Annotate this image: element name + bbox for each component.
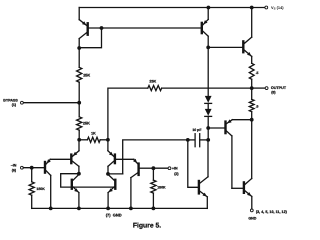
node E (cap right) [206,138,210,142]
resistor R7 150K [29,168,45,209]
node +IN [152,166,156,170]
node Q8 collector / Q10 base [206,46,210,50]
wire bypass lead [23,102,79,104]
node B (Q3 emitter supply) [77,138,81,142]
transistor Q2 (PNP, +input) [131,159,152,209]
svg-text:(2): (2) [174,172,179,176]
resistor R8 150K [151,168,166,208]
transistor Q6 (NPN, mirror output) [108,174,115,208]
transistor Q9 (PNP driver) [208,119,252,188]
node V+ / collector of Q10 [250,6,254,10]
wire Q9 collector to Q11 base [232,187,243,189]
terminal OUTPUT (8) [265,86,287,94]
svg-text:OUTPUT: OUTPUT [271,86,287,90]
node V+ / emitter of Q8 [207,6,211,10]
node F (cap left / Q12 base) [186,138,190,142]
wire mirror tie (node H to base rail) [61,174,115,187]
capacitor C1 10 pF [188,128,208,147]
svg-text:BYPASS: BYPASS [3,99,18,103]
node Q6 emitter at GND [106,207,110,211]
resistor R4 25K (feedback) [148,80,252,91]
wire GND rail (pin 7) [32,207,208,209]
resistor R5 .5 [249,56,258,88]
node BYPASS [77,101,81,105]
transistor Q7 (PNP, diode-connected) [79,8,88,39]
wire node I to Q12 base run [108,140,188,174]
wire output lead [252,87,266,89]
wire +IN lead [152,167,168,169]
svg-text:(8): (8) [271,91,276,95]
node H (Q3 collector / Q5 collector) [77,172,81,176]
wire node C up to feedback run [108,88,148,140]
wire node F to Q12 base [188,140,198,187]
svg-text:(7) GND: (7) GND [106,212,122,217]
wire V+ supply rail (pin 14) [79,7,265,9]
transistor Q4 (PNP, diff pair right) [108,140,134,174]
svg-text:GND: GND [248,217,256,221]
wire D2 to node D [207,116,209,128]
svg-text:−IN: −IN [11,163,17,167]
terminal +IN (2) [168,167,179,177]
transistor Q10 (NPN, upper output) [208,8,252,57]
node D (diode bottom / Q9 base) [206,126,210,130]
transistor Q1 (PNP, -input) [45,159,70,208]
svg-text:10 pF: 10 pF [192,128,202,132]
resistor R2 25K [77,103,91,140]
svg-text:25K: 25K [83,73,90,77]
diode D2 [205,109,212,117]
wire -IN lead [23,167,44,169]
resistor R3 1K [79,131,108,142]
node Q7 base tie [100,26,104,30]
wire node D down to cap node [207,128,209,140]
svg-text:.5: .5 [256,104,259,108]
node I (Q4 collector / Q6 collector) [106,172,110,176]
transistor Q8 (PNP) [202,8,208,48]
wire D1-D2 [207,103,209,109]
node OUTPUT [250,86,254,90]
wire Q7 collector to node A [78,39,80,49]
svg-text:.5: .5 [256,71,259,75]
terminal -IN (6) [11,163,24,172]
svg-text:Figure 5.: Figure 5. [133,223,161,230]
node R8 at GND [152,207,156,211]
svg-text:+IN: +IN [172,167,178,171]
transistor Q12 (NPN, second stage) [199,140,208,209]
resistor R1 25K [77,48,91,103]
svg-text:(3, 4, 5, 10, 11, 12): (3, 4, 5, 10, 11, 12) [256,210,288,214]
svg-text:150K: 150K [157,186,166,190]
node Q2 collector at GND [129,207,133,211]
transistor Q3 (PNP, diff pair left) [71,140,79,174]
svg-text:25K: 25K [149,80,156,84]
node G (Q9 emitter / Q11 collector) [250,118,254,122]
node C (Q4 emitter / feedback) [106,138,110,142]
svg-text:VS (14): VS (14) [271,5,284,11]
label (7) GND [106,212,122,217]
transistor Q5 (NPN, mirror diode) [72,174,79,208]
node A (Q7 collector junction) [77,46,81,50]
svg-text:25K: 25K [83,122,90,126]
resistor R6 .5 [249,88,258,120]
wire Q7 base rail to Q8 base [89,27,201,29]
node -IN [30,166,34,170]
terminal BYPASS (1) [3,99,23,108]
label Figure 5. [133,223,161,230]
wire Q8 collector down to diodes [207,47,209,96]
transistor Q11 (NPN, lower output) [244,120,252,209]
diode D1 [205,96,212,104]
node Q1 collector at GND [49,207,53,211]
node Q5 emitter at GND [77,207,81,211]
svg-text:(1): (1) [12,103,17,107]
wire base-collector tie of Q7 [79,28,101,48]
svg-text:(6): (6) [12,169,17,173]
svg-text:150K: 150K [36,187,45,191]
terminal GND (3,4,5,10,11,12) [248,209,287,221]
terminal VS (14) [265,5,284,11]
svg-text:1K: 1K [91,131,96,135]
